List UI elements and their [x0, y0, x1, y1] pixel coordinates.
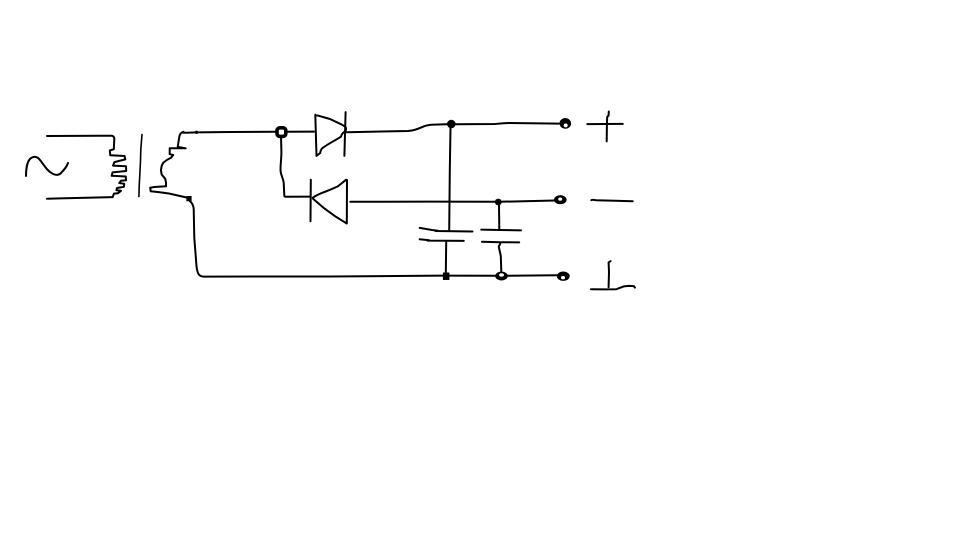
diode D1 — [315, 115, 346, 156]
transformer primary winding L1 — [110, 139, 126, 197]
wire secondary top to node A — [183, 132, 276, 133]
AC source — [26, 157, 68, 176]
node B junction — [447, 120, 456, 129]
transformer core — [139, 135, 142, 197]
secondary bottom hook — [150, 186, 186, 197]
wire primary bottom — [47, 197, 113, 199]
node A junction — [277, 128, 286, 137]
transformer secondary winding L2 — [161, 132, 186, 186]
node E junction — [495, 272, 508, 281]
wire node C to C2 — [498, 205, 500, 229]
node secondary top tap — [195, 131, 198, 134]
capacitor C2 bottom plate — [482, 241, 519, 244]
terminal ground — [557, 271, 570, 280]
terminal plus — [559, 118, 571, 129]
wire C1 to ground rail — [445, 243, 447, 275]
ground rail wire — [203, 275, 557, 276]
wire primary top — [47, 136, 114, 139]
label minus sign — [591, 200, 632, 201]
capacitor C2 top plate — [481, 229, 521, 232]
diode D2 cathode bar — [310, 180, 312, 222]
wire plus rail vertical through C1 — [449, 128, 450, 231]
diode D2 — [313, 180, 347, 224]
wire node A down to D2 — [281, 136, 310, 196]
node C junction — [495, 199, 502, 206]
node D junction — [443, 273, 450, 281]
wire C2 to node E — [499, 244, 502, 272]
wire D2 anode to minus rail — [350, 201, 555, 202]
capacitor C1 top plate — [420, 228, 473, 232]
label plus sign — [587, 112, 623, 142]
capacitor C1 bottom plate — [420, 239, 464, 241]
wire node B to plus terminal — [456, 123, 559, 124]
diode D1 cathode bar — [344, 112, 345, 156]
wire D1 cathode to node B — [347, 124, 448, 132]
terminal minus — [554, 195, 567, 204]
wire node A to D1 anode — [286, 131, 314, 133]
node secondary bottom junction — [186, 196, 191, 201]
ground symbol — [591, 261, 635, 289]
wire secondary center to ground rail — [190, 201, 204, 277]
